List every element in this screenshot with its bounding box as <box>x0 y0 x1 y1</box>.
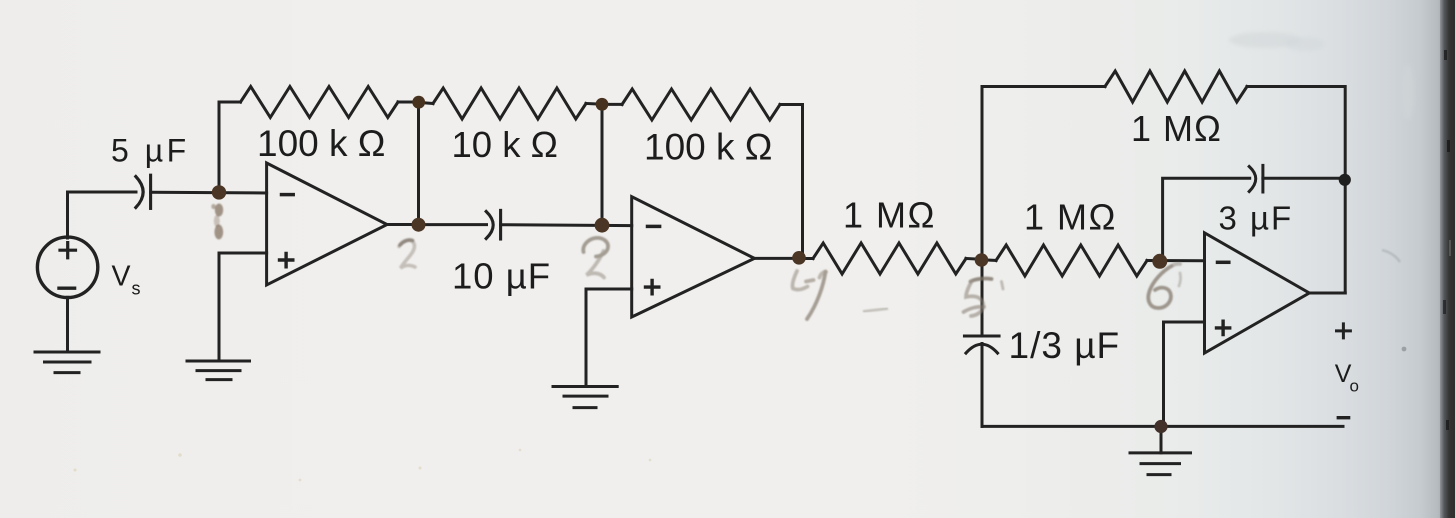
node 4 junction dot <box>792 251 806 265</box>
svg-text:100 k Ω: 100 k Ω <box>644 127 772 168</box>
wire node 6 up to capacitor C4 <box>1163 178 1250 260</box>
svg-text:1 MΩ: 1 MΩ <box>843 195 936 236</box>
op-amp U3 <box>1205 233 1310 353</box>
svg-text:100 k Ω: 100 k Ω <box>257 123 385 164</box>
wire R6 to output rail corner <box>1247 87 1345 294</box>
svg-text:1/3 µF: 1/3 µF <box>1009 325 1121 366</box>
pencil numeral 3 at node 3 <box>583 238 608 278</box>
pencil scratch right of U3 <box>1382 250 1400 262</box>
svg-text:o: o <box>1350 377 1359 396</box>
wire U3 output to rail <box>1309 292 1345 295</box>
pencil numeral 2 at node 2 <box>399 240 415 268</box>
voltage source Vs <box>37 237 97 297</box>
resistor R4 1M <box>813 243 966 274</box>
bleed-through smudges top right <box>1229 32 1414 120</box>
node 3 junction dot <box>595 218 610 233</box>
wire U2 output to node 4 <box>755 257 803 260</box>
wire C2 to node 3 to op-amp U2 inverting input <box>501 223 632 227</box>
wire R2 to top node B <box>586 102 602 106</box>
wire C4 to output rail <box>1263 177 1345 180</box>
svg-text:5 µF: 5 µF <box>111 133 190 169</box>
wire U1 noninverting input to ground <box>219 253 267 361</box>
node B junction dot (top, between R2 and R3) <box>596 98 609 111</box>
svg-text:10 k Ω: 10 k Ω <box>452 124 558 165</box>
pencil smudge node 1 <box>211 204 223 240</box>
junction dot at bottom ground <box>1154 420 1167 433</box>
capacitor C4 3uF <box>1249 165 1263 192</box>
wire R1 to top node A <box>398 101 419 104</box>
wire top node A to R2 <box>419 102 433 103</box>
ground (bottom right) <box>1130 453 1191 475</box>
resistor R6 1M top feedback <box>1105 71 1247 102</box>
wire node 1 up to feedback rail <box>219 102 241 192</box>
node 1 junction dot <box>212 185 226 199</box>
output minus sign <box>1338 416 1348 419</box>
resistor R5 1M <box>996 245 1147 276</box>
svg-text:1 MΩ: 1 MΩ <box>1131 108 1222 149</box>
pencil dash between node 4 and node 5 <box>863 309 888 312</box>
wire node 4 to R4 <box>801 257 814 260</box>
paper speckles bottom left <box>74 449 652 482</box>
wire U2 noninverting input to ground <box>586 289 632 386</box>
wire node 5 up to top feedback rail <box>982 87 1105 260</box>
ground (U2 noninverting) <box>553 387 617 408</box>
output plus sign <box>1337 324 1351 338</box>
wire source top to capacitor C1 <box>68 192 137 238</box>
svg-text:V: V <box>112 261 131 293</box>
scanned page right edge dark band <box>1440 0 1455 518</box>
wire node 3 up to top rail <box>601 104 604 225</box>
pencil numeral 5 at node 5 <box>964 279 1004 316</box>
wire C3 down to bottom rail <box>981 344 984 427</box>
capacitor C1 5uF <box>136 175 151 208</box>
svg-text:1 MΩ: 1 MΩ <box>1024 197 1117 238</box>
resistor R2 10k <box>433 88 586 119</box>
wire R3 down to node 4 <box>780 105 803 259</box>
capacitor C2 10uF <box>486 210 500 239</box>
junction dot at C4 / output rail <box>1339 174 1351 186</box>
wire R4 to node 5 <box>966 257 982 261</box>
svg-text:10 µF: 10 µF <box>452 255 551 296</box>
pencil numeral 6 at node 6 <box>1148 264 1180 308</box>
wire node 2 up to top rail <box>417 102 420 225</box>
node 5 junction dot <box>975 253 989 267</box>
wire U1 output to node 2 <box>387 223 419 226</box>
wire node 2 to capacitor C2 <box>419 223 487 226</box>
capacitor C3 1/3 uF <box>965 336 1000 353</box>
ground (U1 noninverting) <box>187 361 250 380</box>
resistor R1 100k <box>241 87 399 118</box>
node A junction dot (top, between R1 and R2) <box>412 96 425 109</box>
resistor R3 100k <box>622 89 780 120</box>
node 2 junction dot <box>412 218 426 232</box>
ground (source) <box>35 297 99 372</box>
node 6 junction dot <box>1152 254 1167 269</box>
ground stem (bottom right) <box>1160 426 1163 452</box>
pencil numeral 4 at node 4 <box>792 271 826 319</box>
wire node 5 down to capacitor C3 <box>981 260 984 336</box>
wire C1 to node 1 to op-amp U1 inverting input <box>151 191 267 195</box>
wire top node B to R3 <box>602 103 622 106</box>
wire node 5 to R5 <box>982 258 996 262</box>
wire R5 to node 6 to op-amp U3 inverting input <box>1147 259 1205 262</box>
svg-text:s: s <box>132 279 141 299</box>
wire U3 noninverting input down to bottom rail <box>1164 322 1205 426</box>
svg-text:3 µF: 3 µF <box>1219 200 1294 237</box>
bottom rail wire <box>982 425 1343 428</box>
op-amp U2 <box>632 197 755 317</box>
op-amp U1 <box>267 163 387 285</box>
